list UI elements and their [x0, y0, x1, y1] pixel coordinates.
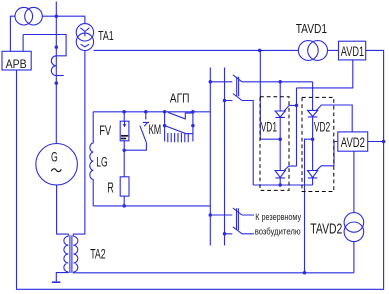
transformer TAVD2 (two overlapping circles) — [344, 213, 364, 233]
svg-text:R: R — [107, 179, 114, 196]
knife switch QS4 wire (to standby exciter) — [225, 233, 255, 235]
knife switch QS3 blade — [233, 208, 242, 215]
wire: DC+ rail corner down into VD2 leg — [312, 82, 314, 111]
thyristor VD1 bottom — [275, 171, 285, 178]
label VD2 — [314, 121, 330, 136]
transformer TA2 core (double bar) — [70, 235, 72, 273]
label AVD1 — [341, 43, 364, 60]
thyristor VD2 bottom gate — [316, 166, 334, 171]
label FV — [99, 122, 111, 138]
node: VD1 midpoint — [278, 137, 282, 141]
VD2 leg vertical — [312, 117, 314, 185]
svg-text:FV: FV — [99, 122, 111, 138]
arrester FV box — [120, 121, 129, 141]
knife QS3/QS4 linkage — [237, 208, 239, 230]
svg-text:КМ: КМ — [149, 124, 162, 138]
svg-text:TAVD2: TAVD2 — [310, 221, 342, 237]
wire: AC feed down from generator line to VD1 midpoint — [260, 50, 280, 139]
ground — [52, 281, 61, 283]
wire: generator to TA2 primary — [57, 185, 69, 236]
wire: TA1 secondary down to TA2 — [73, 51, 85, 237]
wire: AVD2 bottom lead to TAVD2 — [353, 151, 355, 213]
node: tap to VD1 midpoint — [258, 49, 262, 53]
node: knife QS1 tap — [209, 80, 213, 84]
generator AC tilde mark — [51, 169, 61, 172]
wire: TAVD1 to AVD1 — [328, 49, 339, 51]
knife QS1/QS2 linkage — [237, 77, 239, 97]
label LG — [96, 156, 107, 170]
knife switch QS2 blade — [233, 94, 242, 101]
node: VD1 leg on DC- rail — [278, 183, 282, 187]
node: bus dot above reactor — [55, 45, 59, 49]
contactor KM stub and arrow — [143, 112, 149, 127]
wire: TAVD2 bottom lead — [353, 242, 355, 273]
wire: AVD2 right lead to riser — [368, 141, 384, 143]
label KM — [149, 124, 162, 138]
wire: FV bottom lead to node — [123, 140, 125, 150]
AVD2 box — [338, 132, 368, 151]
reactor winding on generator bus (two bumps) — [51, 56, 56, 76]
svg-text:TAVD1: TAVD1 — [296, 23, 327, 36]
transformer TAVD1 (two overlapping circles) — [298, 41, 318, 61]
label G — [51, 151, 58, 165]
transformer TA1 (two vertically overlapping circles) — [76, 24, 93, 41]
svg-text:TA2: TA2 — [90, 247, 106, 263]
label TAVD1 — [296, 23, 327, 36]
knife switch QS3 wire (to standby exciter) — [210, 214, 254, 216]
wire: R bottom lead — [123, 196, 125, 206]
wire: reactor lower tail — [56, 75, 64, 77]
wire: field bottom bus — [93, 205, 210, 207]
thyristor VD2 bottom — [308, 171, 318, 178]
svg-text:VD2: VD2 — [314, 121, 330, 136]
label R — [107, 179, 114, 196]
svg-text:G: G — [51, 151, 58, 165]
node: junction of bottom line with VD2 midpoint leg — [303, 271, 307, 275]
wire: VD2 midpoint jog down to bottom line — [305, 139, 313, 273]
VD1 dashed enclosure — [260, 97, 289, 191]
wire: field top bus — [93, 111, 210, 113]
wire: DC- rail — [253, 184, 312, 186]
node: knife QS2 tap — [223, 99, 227, 103]
label TA2 — [90, 247, 106, 263]
TA2 secondary winding (right) — [73, 236, 77, 272]
VD1 leg vertical — [279, 82, 281, 185]
DC bus 1 (x=210) — [209, 68, 211, 246]
label ARV — [6, 58, 27, 71]
wire: TA2 primary to ground — [56, 272, 68, 282]
thyristor VD2 top gate to AVD2 top — [316, 105, 352, 132]
node: knife QS3 tap — [209, 213, 213, 217]
svg-text:AVD2: AVD2 — [341, 134, 365, 150]
svg-text:К резервному: К резервному — [255, 211, 301, 222]
wire: FV top lead — [123, 112, 125, 121]
thyristor VD1 bottom gate — [284, 166, 297, 170]
generator G — [36, 144, 78, 186]
AGP arc-chute comb — [168, 133, 188, 142]
node: R bottom — [122, 204, 126, 208]
knife switch QS4 blade — [233, 227, 242, 234]
TA1 wye mark in top circle — [80, 28, 89, 37]
knife switch QS1 blade — [233, 75, 242, 82]
svg-text:АРВ: АРВ — [6, 58, 27, 71]
AGP main contact blade — [168, 112, 193, 119]
node: gate tap on AVD1 gate bus — [295, 104, 299, 108]
node: knife QS4 tap — [223, 232, 227, 236]
label AVD2 — [341, 134, 365, 150]
ARV box — [2, 51, 31, 70]
node: AVD2 tap on right riser — [382, 140, 386, 144]
node: AGP bottom-right — [191, 124, 195, 128]
wire: ARV second top lead — [22, 35, 24, 52]
svg-text:LG: LG — [96, 156, 107, 170]
label VD1 — [261, 121, 277, 136]
svg-text:AVD1: AVD1 — [341, 43, 364, 60]
wire: TA1 to TAVD1 horizontal line — [94, 49, 299, 51]
label TA1 — [98, 29, 114, 43]
wire: TV right lead to bus and to TA1 primary — [42, 16, 85, 23]
DC bus 2 (x=224.5) — [224, 68, 226, 246]
node: FV top — [122, 110, 126, 114]
AGP arcing contact blade — [166, 126, 193, 134]
svg-text:АГП: АГП — [170, 90, 190, 106]
TA1 chevron mark in bottom circle — [81, 44, 90, 47]
node: AGP top-right — [191, 110, 195, 114]
node: VD2 midpoint — [311, 137, 315, 141]
voltage transformer TV (two overlapping circles top-left) — [15, 7, 33, 25]
node: AGP top-left — [163, 110, 167, 114]
contactor KM blade — [140, 126, 146, 143]
VD2 dashed enclosure — [302, 97, 334, 191]
node: bus dot below reactor — [55, 81, 59, 85]
wire: AVD2 left lead down to VD2 bottom gate — [334, 142, 338, 166]
wire: main generator bus (vertical, top-left) — [55, 2, 57, 144]
thyristor VD1 top — [275, 111, 285, 117]
thyristor VD1 top gate — [284, 105, 297, 111]
AVD1 gate bus vertical — [296, 88, 298, 166]
wire: ARV bottom lead, page bottom loop, right riser to AVD1 — [17, 50, 384, 289]
wire: TA2 secondary long bottom line to TAVD2 — [73, 271, 354, 274]
thyristor VD2 top — [308, 110, 318, 117]
resistor R box — [120, 177, 129, 196]
knife switch QS1 wire — [210, 81, 312, 83]
FV arrow symbol — [124, 121, 126, 125]
knife switch QS2 wire — [225, 101, 254, 186]
node: bus / TV junction — [55, 14, 59, 18]
label: to standby exciter line 2 — [255, 226, 301, 237]
FV gap electrodes (dark bars) — [121, 135, 128, 137]
node: KM top — [144, 110, 148, 114]
AGP right terminal column — [192, 112, 194, 142]
wire: TV left lead down to ARV box — [10, 16, 15, 51]
node: VD1 anode tap on DC+ rail — [278, 80, 282, 84]
wire: node to KM blade bottom — [124, 142, 146, 150]
svg-text:TA1: TA1 — [98, 29, 114, 43]
wire: ARV bypass around bus reactor — [23, 35, 66, 56]
field winding LG vertical + bumps — [90, 112, 93, 206]
label: to standby exciter line 1 — [255, 211, 301, 222]
TA2 primary winding (left) — [64, 236, 68, 272]
AVD1 box — [339, 41, 366, 60]
node: FV / KM / R junction — [122, 148, 126, 152]
wire: node down to R — [123, 150, 125, 177]
wire: AVD1 bottom lead to gate bus — [297, 60, 353, 88]
svg-text:возбудителю: возбудителю — [255, 226, 301, 237]
AGP left terminal column — [164, 112, 166, 142]
label TAVD2 — [310, 221, 342, 237]
node: AGP bottom-left — [163, 124, 167, 128]
svg-text:VD1: VD1 — [261, 121, 277, 136]
label AGP — [170, 90, 190, 106]
